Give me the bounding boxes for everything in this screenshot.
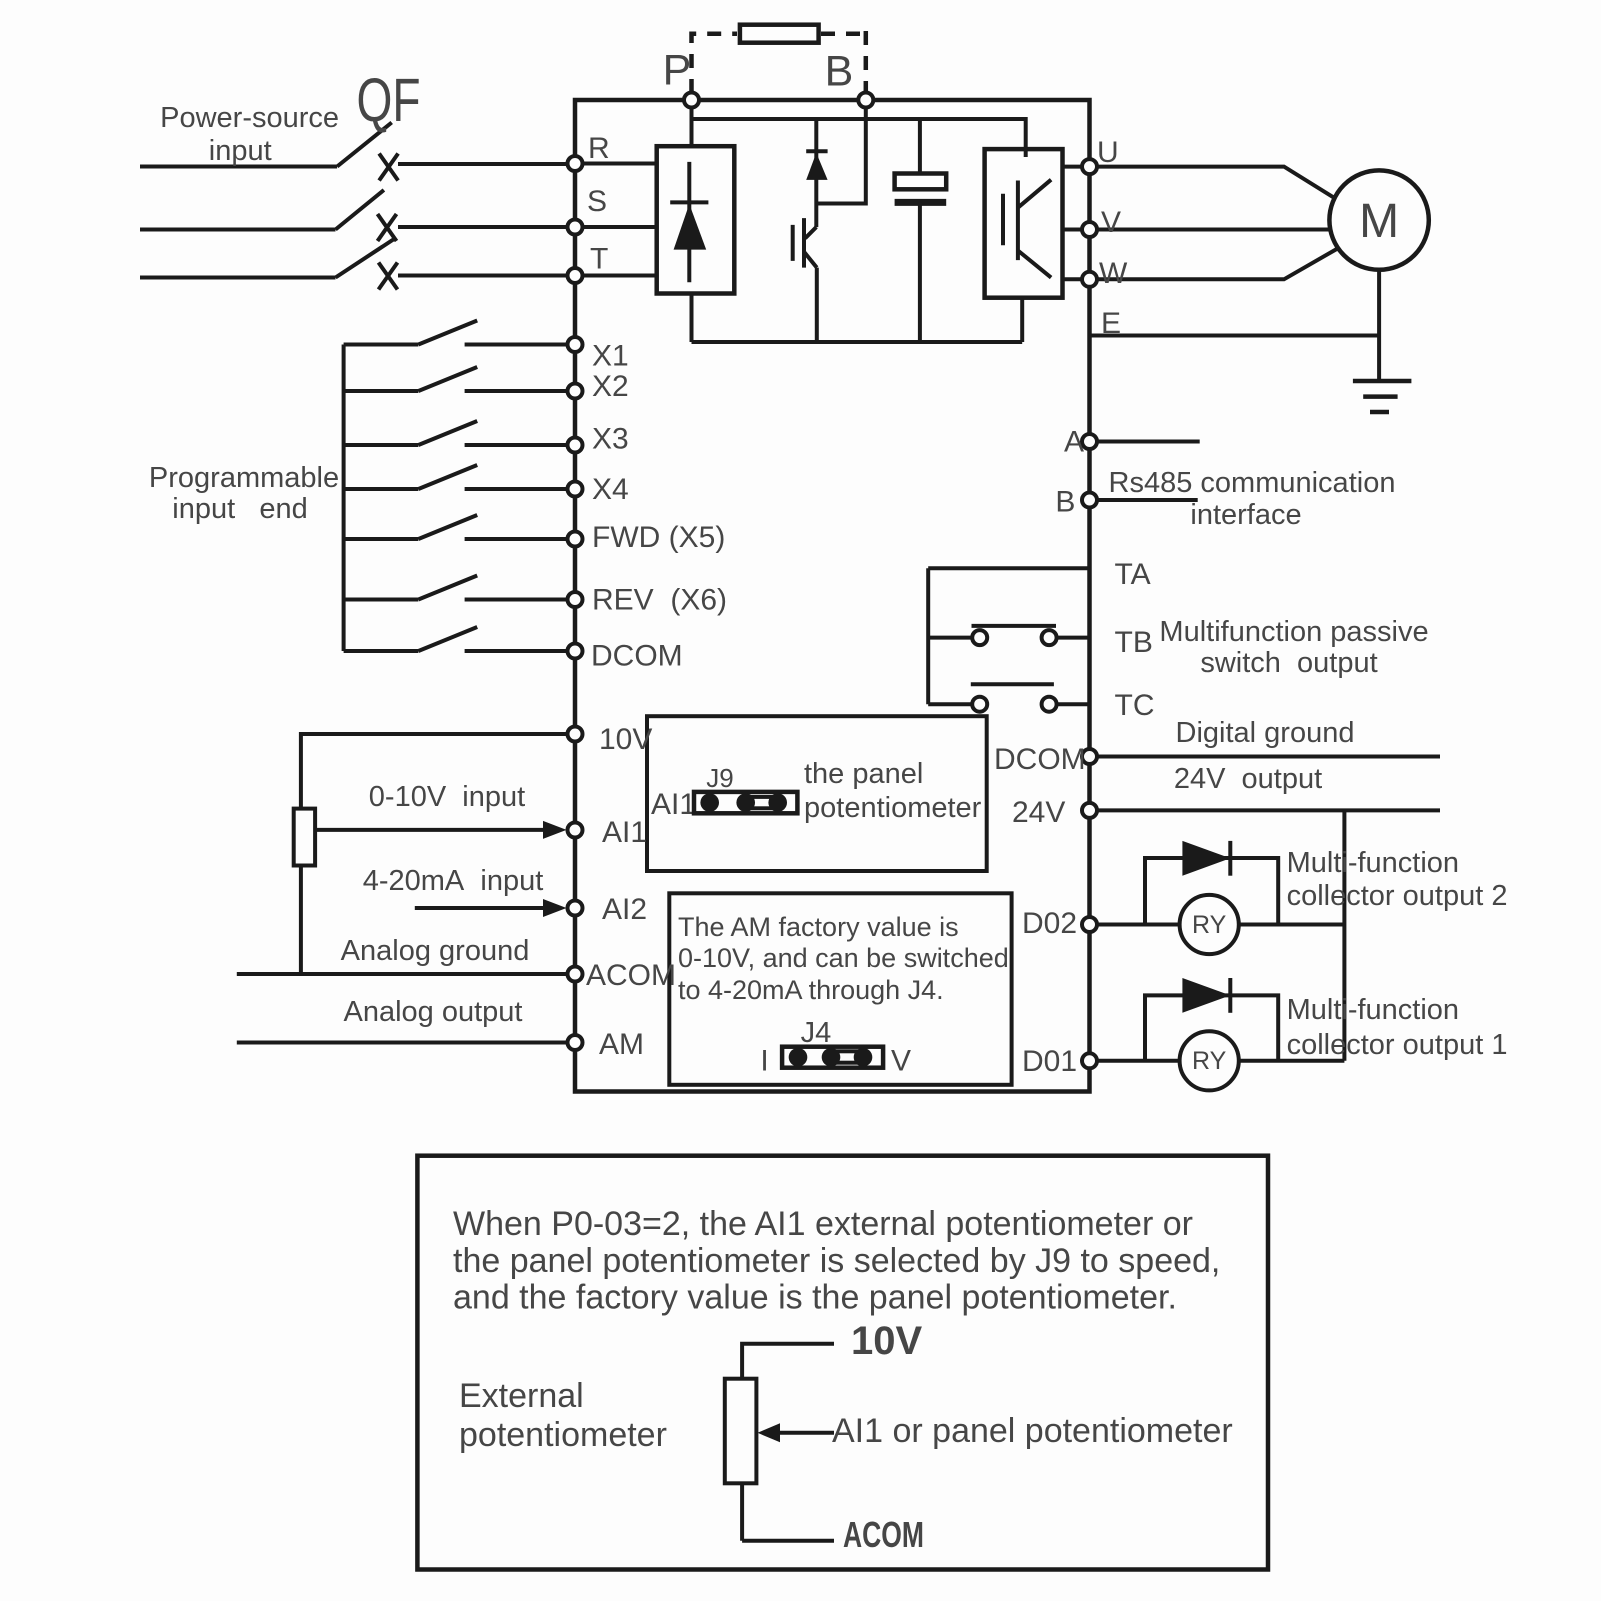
svg-text:FWD (X5): FWD (X5): [592, 521, 725, 554]
svg-text:D02: D02: [1022, 907, 1077, 940]
svg-text:D01: D01: [1022, 1045, 1077, 1078]
svg-text:Analog ground: Analog ground: [341, 935, 530, 967]
svg-text:to 4-20mA through J4.: to 4-20mA through J4.: [678, 975, 944, 1005]
svg-text:AI2: AI2: [602, 893, 647, 926]
svg-text:X1: X1: [592, 340, 629, 373]
svg-text:S: S: [587, 185, 607, 218]
svg-text:TB: TB: [1115, 626, 1153, 659]
svg-text:input end: input end: [172, 493, 307, 525]
svg-text:interface: interface: [1190, 499, 1301, 531]
svg-text:Multi-function: Multi-function: [1287, 847, 1459, 879]
svg-text:0-10V input: 0-10V input: [369, 781, 525, 813]
svg-text:ACOM: ACOM: [843, 1514, 924, 1555]
svg-text:DCOM: DCOM: [994, 743, 1086, 776]
svg-text:the panel potentiometer is sel: the panel potentiometer is selected by J…: [453, 1242, 1220, 1280]
svg-text:input: input: [209, 135, 272, 167]
svg-text:X4: X4: [592, 473, 629, 506]
svg-text:24V output: 24V output: [1174, 763, 1322, 795]
svg-text:P: P: [663, 47, 692, 95]
svg-text:switch output: switch output: [1200, 647, 1377, 679]
svg-text:B: B: [1055, 486, 1075, 519]
svg-text:When P0-03=2, the AI1 external: When P0-03=2, the AI1 external potentiom…: [453, 1205, 1193, 1243]
svg-text:collector output 2: collector output 2: [1287, 880, 1508, 912]
svg-text:X3: X3: [592, 423, 629, 456]
svg-text:Digital ground: Digital ground: [1176, 717, 1355, 749]
svg-text:X2: X2: [592, 370, 629, 403]
svg-text:RY: RY: [1192, 911, 1227, 939]
svg-text:R: R: [588, 132, 610, 165]
svg-text:TC: TC: [1115, 689, 1155, 722]
svg-text:External: External: [459, 1377, 584, 1415]
svg-text:4-20mA input: 4-20mA input: [363, 865, 544, 897]
svg-text:W: W: [1099, 257, 1128, 290]
svg-text:REV (X6): REV (X6): [592, 584, 727, 617]
svg-text:24V: 24V: [1012, 796, 1065, 829]
svg-text:DCOM: DCOM: [591, 640, 683, 673]
svg-text:The AM factory value is: The AM factory value is: [678, 912, 959, 942]
svg-text:potentiometer: potentiometer: [804, 792, 982, 824]
svg-text:E: E: [1101, 307, 1121, 340]
svg-text:B: B: [825, 48, 854, 96]
svg-text:Power-source: Power-source: [160, 102, 339, 134]
svg-text:ACOM: ACOM: [586, 959, 676, 992]
svg-text:the panel: the panel: [804, 758, 923, 790]
svg-text:collector output 1: collector output 1: [1287, 1029, 1508, 1061]
svg-text:J9: J9: [706, 763, 733, 793]
svg-text:AI1: AI1: [651, 788, 696, 821]
svg-text:T: T: [590, 243, 608, 276]
svg-text:Programmable: Programmable: [149, 462, 339, 494]
svg-text:U: U: [1097, 136, 1119, 169]
svg-text:0-10V, and can be switched: 0-10V, and can be switched: [678, 943, 1009, 973]
svg-text:and the factory value is the p: and the factory value is the panel poten…: [453, 1279, 1177, 1317]
svg-text:10V: 10V: [851, 1319, 922, 1363]
svg-text:RY: RY: [1192, 1047, 1227, 1075]
svg-text:V: V: [891, 1045, 911, 1078]
svg-text:Rs485 communication: Rs485 communication: [1109, 467, 1396, 499]
svg-text:10V: 10V: [599, 723, 652, 756]
svg-text:Analog output: Analog output: [344, 996, 523, 1028]
svg-text:TA: TA: [1115, 558, 1151, 591]
svg-text:AM: AM: [599, 1028, 644, 1061]
svg-text:Multi-function: Multi-function: [1287, 994, 1459, 1026]
svg-text:QF: QF: [357, 66, 421, 134]
svg-text:J4: J4: [801, 1017, 832, 1049]
svg-text:I: I: [760, 1045, 768, 1078]
svg-text:potentiometer: potentiometer: [459, 1416, 667, 1454]
svg-text:A: A: [1064, 426, 1084, 459]
svg-text:AI1: AI1: [602, 816, 647, 849]
svg-text:M: M: [1359, 195, 1399, 248]
svg-text:AI1 or panel potentiometer: AI1 or panel potentiometer: [832, 1412, 1233, 1450]
svg-text:Multifunction passive: Multifunction passive: [1159, 616, 1428, 648]
svg-text:V: V: [1101, 206, 1121, 239]
